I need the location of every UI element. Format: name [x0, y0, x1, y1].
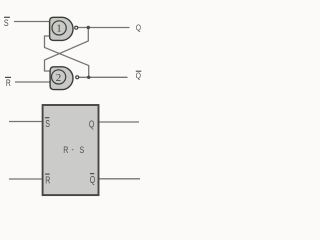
svg-text:S: S [45, 118, 50, 129]
svg-text:Q: Q [136, 23, 141, 33]
svg-text:R: R [45, 174, 50, 185]
svg-text:S: S [80, 144, 85, 155]
svg-text:Q: Q [89, 118, 95, 129]
svg-text:S: S [4, 17, 9, 28]
svg-text:R: R [63, 144, 68, 155]
svg-text:Q: Q [90, 174, 96, 185]
svg-text:2: 2 [56, 72, 62, 84]
svg-text:R: R [6, 78, 11, 88]
svg-text:-: - [72, 145, 75, 155]
svg-text:1: 1 [56, 23, 62, 35]
svg-text:Q: Q [136, 71, 141, 81]
